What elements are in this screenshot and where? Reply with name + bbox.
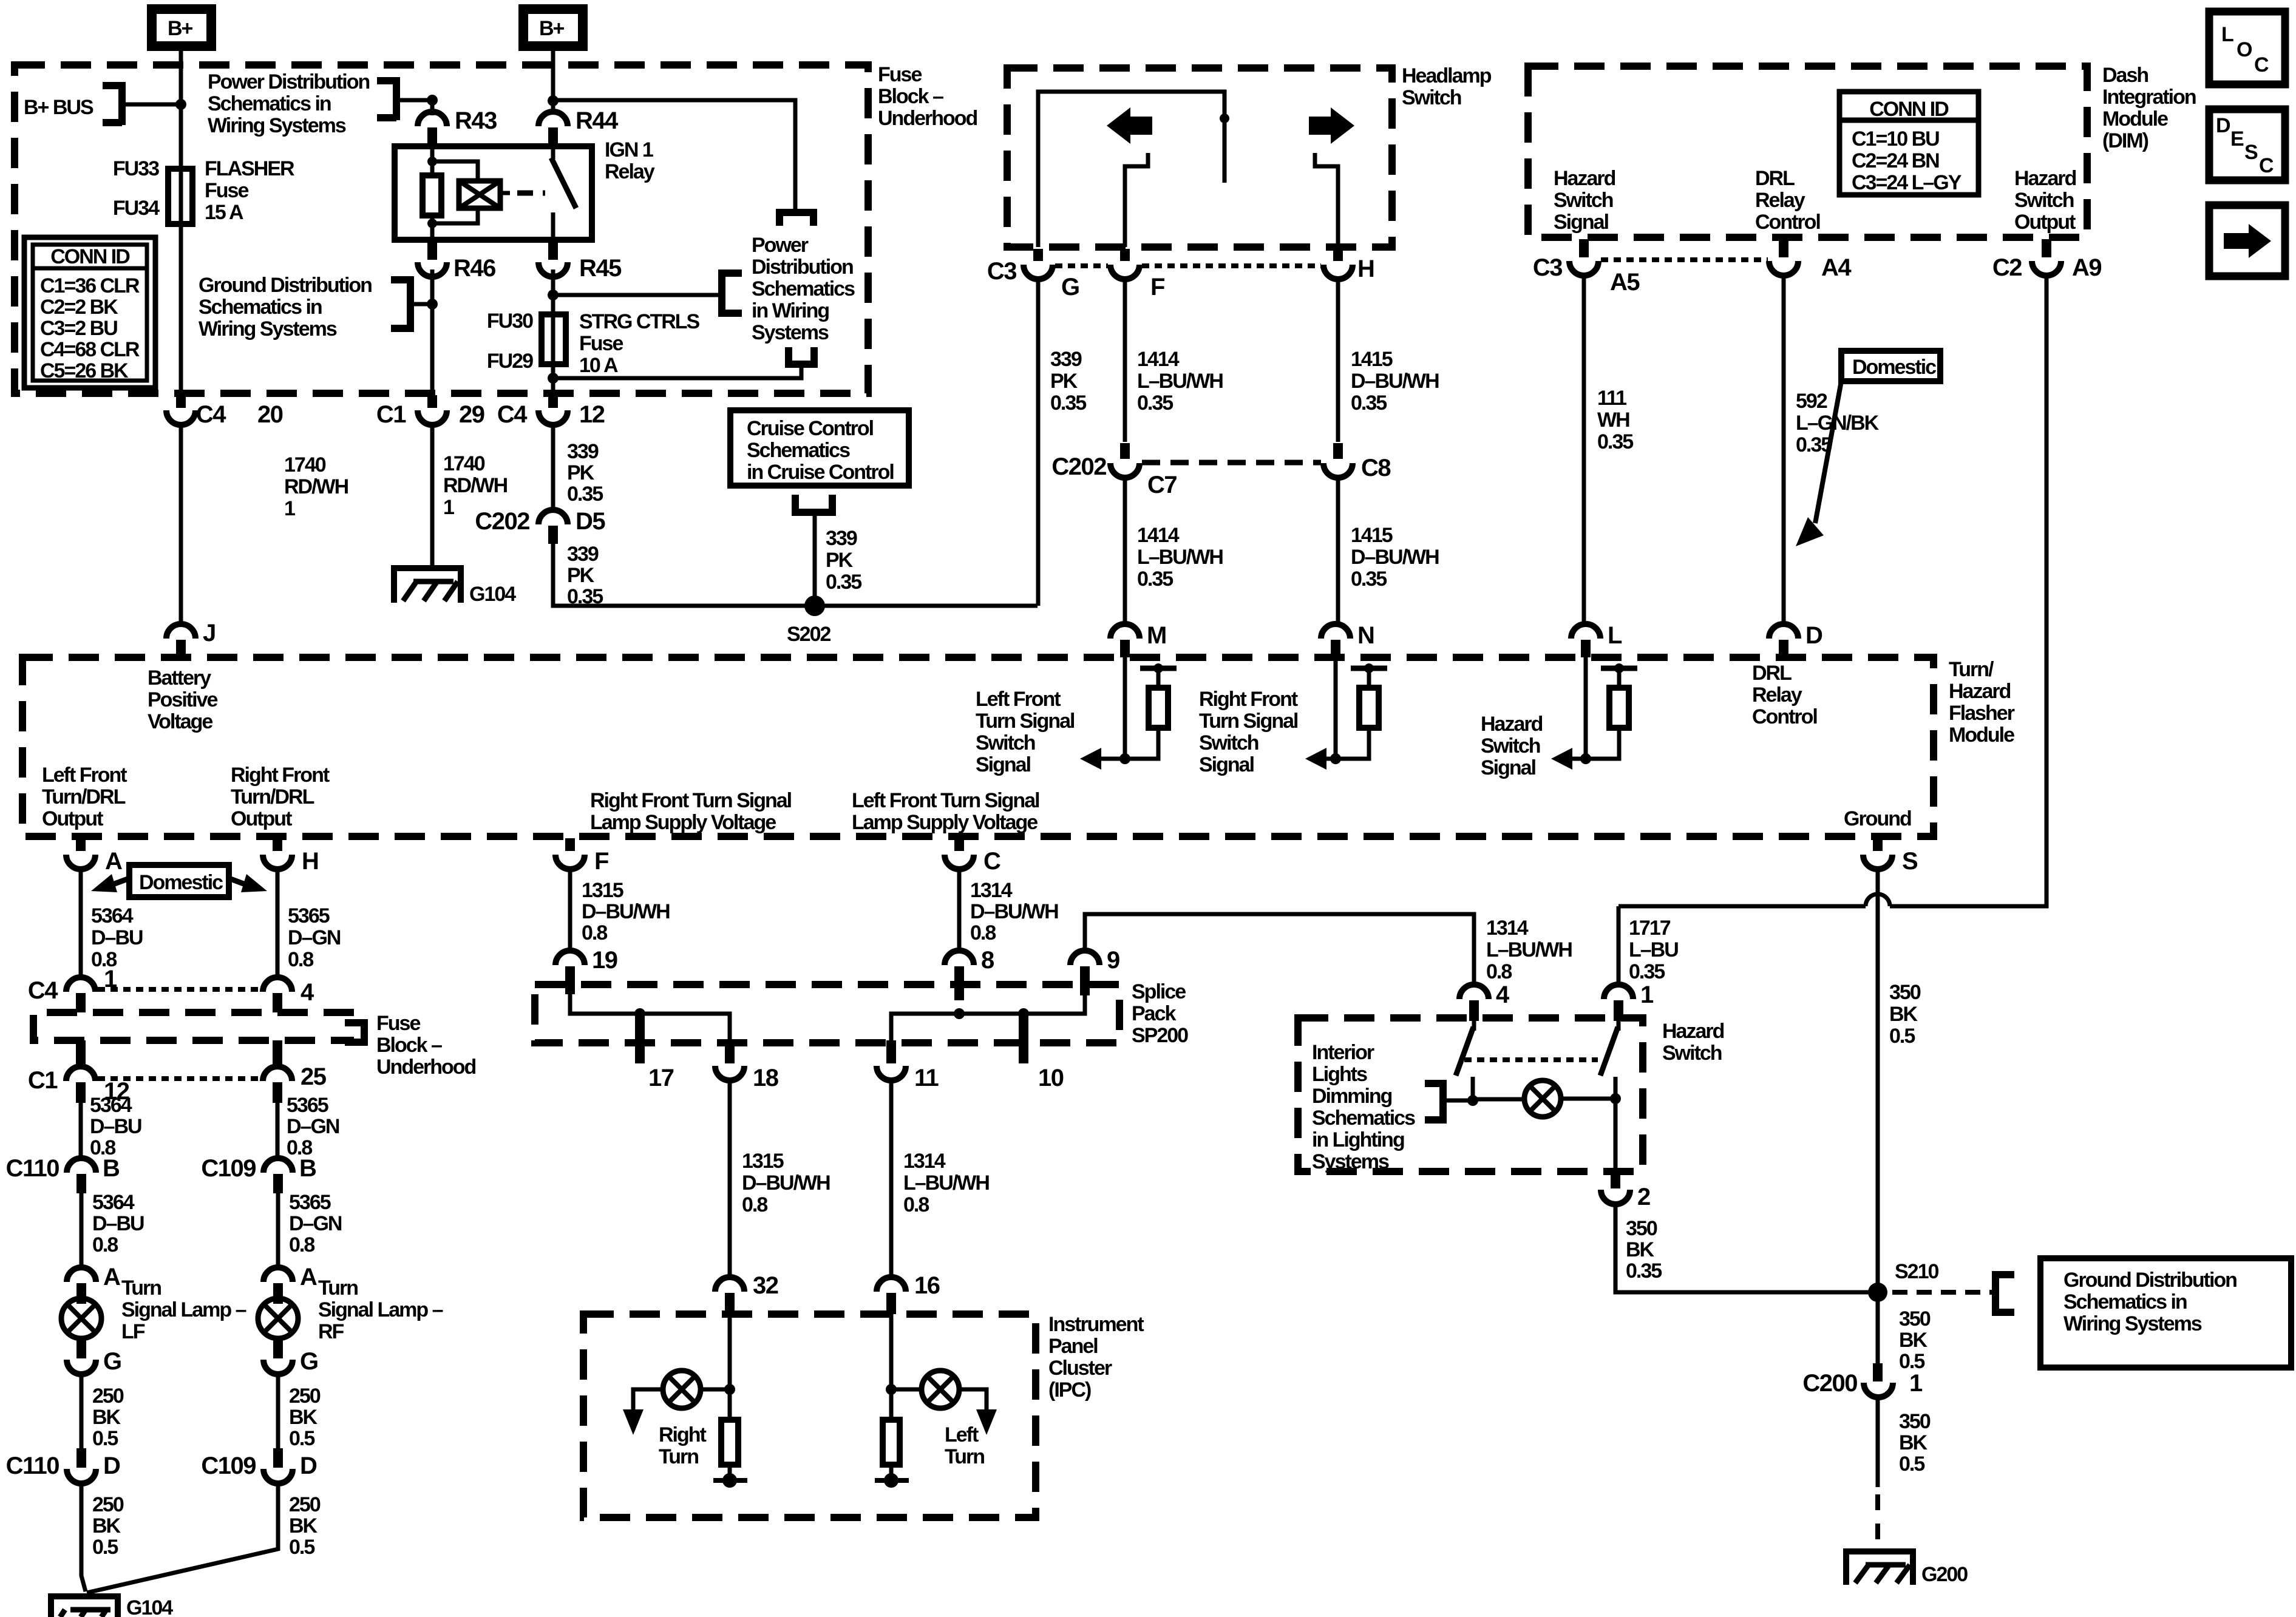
- DESC box: [2209, 109, 2285, 180]
- svg-text:CONN ID: CONN ID: [50, 245, 130, 268]
- connector 9: [1070, 951, 1099, 965]
- svg-text:FU33: FU33: [113, 157, 159, 180]
- svg-text:G104: G104: [126, 1596, 173, 1617]
- wire R43 top: [430, 100, 435, 115]
- svg-text:Left Front Turn Signal: Left Front Turn Signal: [852, 789, 1039, 812]
- relay switch: [551, 146, 555, 240]
- B+ terminal 1: [152, 9, 211, 46]
- svg-text:S: S: [1902, 848, 1918, 875]
- svg-text:Switch: Switch: [1554, 189, 1613, 212]
- svg-text:Output: Output: [2014, 211, 2076, 234]
- svg-text:19: 19: [592, 947, 617, 974]
- hazard switch blades: [1474, 1021, 1618, 1031]
- node S202 splice: [804, 595, 825, 616]
- svg-text:0.5: 0.5: [1889, 1025, 1915, 1048]
- svg-text:350: 350: [1626, 1217, 1657, 1240]
- svg-text:STRG CTRLS: STRG CTRLS: [579, 310, 700, 333]
- dotted link C4 row: [98, 987, 260, 992]
- svg-text:Ground: Ground: [1844, 807, 1911, 830]
- svg-text:Power: Power: [752, 234, 809, 257]
- svg-text:Output: Output: [231, 807, 292, 830]
- svg-text:C200: C200: [1802, 1370, 1857, 1397]
- svg-text:Block –: Block –: [878, 85, 943, 108]
- svg-text:B+: B+: [539, 17, 565, 40]
- svg-text:D–BU/WH: D–BU/WH: [1351, 546, 1439, 569]
- splice pack SP200 (dashed box): [535, 985, 1119, 1043]
- svg-text:Right Front: Right Front: [231, 764, 330, 787]
- svg-text:Domestic: Domestic: [139, 871, 223, 894]
- svg-text:C2=24 BN: C2=24 BN: [1852, 149, 1939, 172]
- svg-text:G200: G200: [1921, 1563, 1968, 1586]
- ground G200: [1846, 1551, 1968, 1586]
- svg-text:D–GN: D–GN: [288, 926, 341, 949]
- svg-text:0.35: 0.35: [1629, 960, 1665, 983]
- svg-text:C7: C7: [1147, 472, 1177, 498]
- wire 350 BK 0.5 (to G200): [1876, 1398, 1880, 1487]
- node ground dist junction: [427, 299, 438, 310]
- svg-text:Turn: Turn: [659, 1445, 698, 1468]
- connector C4-12: [548, 395, 558, 408]
- svg-text:R45: R45: [579, 255, 622, 282]
- svg-text:1315: 1315: [582, 879, 623, 902]
- ground distribution reference box: [2040, 1258, 2291, 1368]
- svg-text:BK: BK: [289, 1514, 318, 1537]
- connector 18: [725, 1040, 735, 1063]
- connector C109-B: [263, 1158, 293, 1173]
- svg-text:L–BU/WH: L–BU/WH: [1137, 370, 1223, 393]
- svg-text:Relay: Relay: [605, 160, 655, 183]
- wire 1740 RD/WH 1 (C1-29): [430, 425, 435, 568]
- svg-text:Fuse: Fuse: [878, 63, 922, 86]
- svg-text:Distribution: Distribution: [752, 256, 853, 279]
- svg-text:Hazard: Hazard: [1481, 713, 1543, 736]
- hazard indicator lamp: [1473, 1099, 1615, 1099]
- svg-text:Block –: Block –: [376, 1034, 442, 1057]
- svg-text:Wiring Systems: Wiring Systems: [2063, 1312, 2202, 1335]
- svg-text:Splice: Splice: [1132, 980, 1186, 1003]
- wire 1414 L-BU/WH (F lower): [1123, 478, 1127, 624]
- svg-text:592: 592: [1796, 390, 1827, 413]
- svg-text:F: F: [594, 848, 608, 875]
- svg-text:5364: 5364: [91, 904, 134, 927]
- svg-text:Left: Left: [945, 1423, 979, 1446]
- wire B+1 down: [179, 51, 183, 393]
- svg-text:250: 250: [92, 1385, 124, 1408]
- svg-text:32: 32: [753, 1272, 778, 1299]
- svg-text:A9: A9: [2072, 254, 2101, 281]
- svg-text:Systems: Systems: [1312, 1150, 1389, 1173]
- connector A4: [1779, 239, 1788, 257]
- svg-text:L–GN/BK: L–GN/BK: [1796, 412, 1880, 435]
- connector A (lamp LF): [67, 1267, 96, 1282]
- connector C4-20: [176, 395, 186, 408]
- svg-text:Cluster: Cluster: [1048, 1357, 1112, 1380]
- connector C4-4 (right): [263, 977, 292, 992]
- svg-text:5365: 5365: [287, 1094, 328, 1117]
- svg-text:L–BU/WH: L–BU/WH: [903, 1171, 989, 1195]
- svg-text:1414: 1414: [1137, 348, 1180, 371]
- svg-text:0.35: 0.35: [1050, 392, 1086, 415]
- svg-text:339: 339: [826, 527, 857, 550]
- B+ terminal 2: [523, 9, 583, 46]
- svg-text:Fuse: Fuse: [579, 332, 623, 355]
- wire 250 BK 0.5 (LF): [80, 1374, 84, 1448]
- svg-text:5364: 5364: [92, 1191, 135, 1214]
- svg-text:5364: 5364: [90, 1094, 132, 1117]
- svg-text:339: 339: [1050, 348, 1082, 371]
- connector G (RF): [273, 1338, 283, 1358]
- svg-text:C: C: [2254, 53, 2269, 76]
- svg-text:29: 29: [459, 401, 484, 428]
- ground G104 (lower): [51, 1596, 173, 1617]
- svg-text:Ground Distribution: Ground Distribution: [2063, 1269, 2237, 1292]
- connector J: [166, 624, 195, 639]
- svg-text:0.8: 0.8: [903, 1193, 929, 1216]
- wire 250 BK 0.5 (LF 2): [81, 1483, 86, 1592]
- svg-text:Turn Signal: Turn Signal: [1199, 710, 1298, 733]
- svg-text:A: A: [103, 1264, 120, 1290]
- svg-text:CONN ID: CONN ID: [1869, 98, 1949, 121]
- svg-text:D: D: [2216, 114, 2230, 137]
- svg-text:4: 4: [1496, 981, 1510, 1008]
- splice bus left: [570, 994, 730, 1040]
- svg-text:BK: BK: [1626, 1238, 1655, 1261]
- bracket fuse block label: [345, 1019, 364, 1046]
- svg-text:0.5: 0.5: [1899, 1453, 1924, 1476]
- L internal: [1584, 657, 1588, 759]
- svg-text:L–BU: L–BU: [1629, 938, 1678, 961]
- svg-text:4: 4: [301, 979, 314, 1006]
- connector C1-29: [427, 395, 437, 408]
- svg-text:D–BU/WH: D–BU/WH: [582, 900, 670, 923]
- svg-text:250: 250: [92, 1493, 124, 1516]
- svg-text:D–GN: D–GN: [289, 1212, 342, 1235]
- connector C4-1 (left): [66, 977, 95, 992]
- svg-text:C109: C109: [201, 1453, 256, 1479]
- svg-text:0.35: 0.35: [1351, 568, 1387, 591]
- svg-text:Switch: Switch: [1662, 1042, 1722, 1065]
- svg-text:Instrument: Instrument: [1048, 1313, 1144, 1336]
- svg-text:(IPC): (IPC): [1048, 1378, 1091, 1402]
- wire 5364 D-BU 0.8 (A): [79, 869, 83, 977]
- svg-text:Turn: Turn: [945, 1445, 984, 1468]
- connector S (module bottom): [1873, 838, 1883, 851]
- connector C1-12 (left): [76, 1040, 86, 1066]
- svg-text:PK: PK: [567, 564, 595, 587]
- svg-text:Schematics in: Schematics in: [199, 296, 322, 319]
- svg-text:Turn Signal: Turn Signal: [976, 710, 1075, 733]
- svg-text:E: E: [2230, 127, 2244, 151]
- connector D: [1769, 624, 1798, 639]
- hop over S wire: [1866, 894, 1890, 906]
- svg-text:DRL: DRL: [1752, 662, 1792, 685]
- svg-text:D5: D5: [576, 508, 605, 535]
- Domestic tag (left) with arrows: [91, 865, 267, 897]
- svg-text:1314: 1314: [1486, 917, 1529, 940]
- node S210 splice: [1868, 1283, 1887, 1302]
- svg-text:250: 250: [289, 1385, 321, 1408]
- svg-text:Right Front Turn Signal: Right Front Turn Signal: [590, 789, 792, 812]
- svg-text:PK: PK: [826, 549, 854, 572]
- svg-text:BK: BK: [1899, 1431, 1928, 1454]
- bracket pd right-left: [722, 269, 742, 317]
- svg-text:0.8: 0.8: [92, 1233, 118, 1256]
- svg-text:C1=10 BU: C1=10 BU: [1852, 127, 1939, 151]
- svg-text:Voltage: Voltage: [148, 710, 212, 733]
- svg-text:Cruise Control: Cruise Control: [747, 417, 874, 440]
- connector H (headlamp): [1333, 249, 1343, 261]
- wire 5365 D-GN 0.8 (H): [276, 869, 280, 977]
- connector C202-C7: [1120, 443, 1130, 459]
- bracket power distribution left: [377, 77, 396, 120]
- wire 1415 D-BU/WH (H upper): [1336, 279, 1340, 442]
- svg-text:C1: C1: [376, 401, 406, 428]
- connector C (module bottom): [954, 838, 964, 851]
- svg-text:B+ BUS: B+ BUS: [24, 96, 93, 119]
- svg-text:C: C: [2259, 154, 2274, 177]
- connector 19: [555, 951, 585, 965]
- connector C2-A9: [2042, 239, 2051, 257]
- svg-text:0.35: 0.35: [1137, 568, 1173, 591]
- svg-text:0.8: 0.8: [742, 1193, 767, 1216]
- wire 1414 L-BU/WH (F upper): [1123, 279, 1127, 442]
- svg-text:1415: 1415: [1351, 524, 1393, 547]
- svg-text:RF: RF: [318, 1320, 344, 1343]
- svg-text:0.35: 0.35: [1137, 392, 1173, 415]
- relay resistor: [430, 146, 435, 240]
- connector R46: [427, 242, 437, 260]
- svg-text:Hazard: Hazard: [1949, 680, 2011, 703]
- right contact: [1315, 153, 1338, 247]
- svg-text:PK: PK: [1050, 370, 1078, 393]
- svg-text:0.8: 0.8: [970, 921, 996, 944]
- wire 1315 D-BU/WH 0.8 (F chain): [568, 869, 572, 951]
- svg-text:D–BU/WH: D–BU/WH: [970, 900, 1058, 923]
- svg-text:Right Front: Right Front: [1199, 688, 1298, 711]
- svg-text:F: F: [1150, 274, 1164, 300]
- CONN ID table (DIM): [1839, 92, 1978, 195]
- LOC box: [2209, 12, 2285, 84]
- svg-text:C109: C109: [201, 1155, 256, 1182]
- svg-text:Battery: Battery: [148, 666, 211, 690]
- bracket pd top: [779, 212, 813, 226]
- connector M: [1110, 624, 1140, 639]
- connector L: [1571, 624, 1600, 639]
- wire 1314 L-BU/WH 0.8 (11 to 16): [889, 1080, 894, 1277]
- left turn arrow: [1107, 107, 1152, 144]
- svg-text:Control: Control: [1755, 211, 1820, 234]
- stub 17: [635, 1014, 645, 1063]
- svg-text:12: 12: [579, 401, 605, 428]
- connector C8: [1333, 443, 1343, 459]
- svg-text:Left Front: Left Front: [42, 764, 127, 787]
- wire 9 up to 1314 run: [1085, 914, 1474, 985]
- wire bracket to bus: [122, 103, 181, 107]
- connector G (LF): [76, 1338, 86, 1358]
- svg-text:Switch: Switch: [2014, 189, 2074, 212]
- svg-text:FU29: FU29: [487, 350, 533, 373]
- svg-text:1740: 1740: [284, 453, 326, 476]
- svg-text:Switch: Switch: [976, 731, 1035, 754]
- svg-text:RD/WH: RD/WH: [284, 475, 348, 498]
- node junction B+ bus: [175, 99, 186, 110]
- svg-text:Underhood: Underhood: [878, 107, 977, 130]
- svg-text:Signal Lamp –: Signal Lamp –: [318, 1298, 443, 1321]
- svg-text:Pack: Pack: [1132, 1002, 1176, 1025]
- svg-text:A: A: [105, 848, 122, 875]
- svg-text:B: B: [103, 1155, 120, 1182]
- svg-text:C8: C8: [1361, 455, 1391, 481]
- relay coil: [432, 161, 478, 223]
- connector N: [1321, 624, 1350, 639]
- svg-text:1: 1: [284, 497, 295, 520]
- left turn indicator lamp: [889, 1314, 894, 1420]
- svg-text:J: J: [203, 620, 216, 646]
- svg-text:DRL: DRL: [1755, 167, 1795, 190]
- splice bus right: [891, 995, 1085, 1040]
- svg-text:LF: LF: [121, 1320, 145, 1343]
- node junction R44 top: [548, 95, 559, 106]
- svg-text:Ground Distribution: Ground Distribution: [199, 274, 372, 297]
- svg-text:C110: C110: [6, 1453, 59, 1479]
- wire 250 BK 0.5 (RF 2): [87, 1483, 278, 1593]
- svg-text:Wiring Systems: Wiring Systems: [199, 317, 337, 341]
- svg-text:S202: S202: [787, 623, 830, 646]
- svg-text:D–BU: D–BU: [92, 1212, 144, 1235]
- svg-text:IGN 1: IGN 1: [605, 138, 653, 161]
- wire 1314 D-BU/WH 0.8 (C chain): [957, 869, 962, 951]
- svg-text:Lights: Lights: [1312, 1063, 1367, 1086]
- M internal: wire, resistor branch, arrow: [1123, 657, 1127, 759]
- svg-text:Switch: Switch: [1199, 731, 1258, 754]
- svg-text:D–BU/WH: D–BU/WH: [742, 1171, 830, 1195]
- connector 16: [877, 1277, 906, 1292]
- relay coil to switch dashes: [500, 191, 510, 195]
- svg-text:0.5: 0.5: [92, 1427, 118, 1450]
- svg-text:in Lighting: in Lighting: [1312, 1128, 1404, 1151]
- connector C3-G: [1033, 249, 1043, 261]
- wire 1315 D-BU/WH 0.8 (18 to 32): [728, 1080, 732, 1277]
- connector A (module bottom): [76, 838, 86, 851]
- connector 8: [945, 951, 974, 965]
- svg-text:G104: G104: [469, 583, 516, 606]
- S wire down: [1876, 869, 1880, 1292]
- svg-text:Underhood: Underhood: [376, 1056, 476, 1079]
- svg-text:in Wiring: in Wiring: [752, 299, 829, 322]
- svg-text:C3=24 L–GY: C3=24 L–GY: [1852, 171, 1962, 194]
- svg-text:Fuse: Fuse: [376, 1012, 420, 1035]
- wire 592 L-GN/BK 0.35 (A4 to D): [1782, 276, 1786, 624]
- svg-text:1315: 1315: [742, 1150, 784, 1173]
- svg-text:B+: B+: [168, 17, 193, 40]
- svg-text:C3=2 BU: C3=2 BU: [40, 317, 117, 340]
- svg-text:C1=36 CLR: C1=36 CLR: [40, 274, 140, 297]
- svg-text:L: L: [2221, 23, 2233, 46]
- svg-text:FLASHER: FLASHER: [205, 157, 294, 180]
- svg-text:Interior: Interior: [1312, 1041, 1374, 1064]
- svg-text:1: 1: [443, 496, 454, 519]
- connector 1 (hazard): [1617, 906, 1621, 985]
- svg-text:H: H: [302, 848, 318, 875]
- svg-text:350: 350: [1899, 1307, 1931, 1331]
- svg-text:C4: C4: [497, 401, 528, 428]
- svg-text:1: 1: [1909, 1370, 1923, 1397]
- wire 339 PK 0.35 below D5: [553, 544, 1038, 606]
- svg-text:0.35: 0.35: [826, 571, 861, 594]
- svg-text:WH: WH: [1597, 408, 1629, 432]
- svg-text:Lamp Supply Voltage: Lamp Supply Voltage: [852, 811, 1038, 834]
- wire 5365 D-GN 0.8 (2): [276, 1103, 280, 1158]
- svg-text:339: 339: [567, 440, 599, 463]
- wire R46 down to C1-29: [430, 269, 435, 393]
- connector R43 (dome): [418, 112, 447, 126]
- svg-text:S210: S210: [1895, 1260, 1938, 1283]
- N internal: [1334, 657, 1338, 759]
- svg-text:FU34: FU34: [113, 197, 160, 220]
- svg-text:Hazard: Hazard: [2014, 167, 2076, 190]
- svg-text:Schematics: Schematics: [1312, 1107, 1415, 1130]
- svg-text:350: 350: [1899, 1410, 1931, 1433]
- svg-text:1717: 1717: [1629, 917, 1671, 940]
- svg-text:C3: C3: [1533, 254, 1562, 281]
- svg-text:R43: R43: [455, 107, 497, 134]
- svg-text:B: B: [299, 1155, 316, 1182]
- svg-text:0.35: 0.35: [567, 585, 603, 608]
- svg-text:17: 17: [648, 1065, 674, 1091]
- IGN 1 relay box: [395, 146, 592, 240]
- connector C110-D: [76, 1448, 86, 1468]
- wire 1415 D-BU/WH (H lower): [1336, 478, 1340, 624]
- bracket interior lights: [1425, 1080, 1443, 1124]
- svg-text:1314: 1314: [970, 879, 1013, 902]
- svg-text:Module: Module: [2102, 107, 2168, 131]
- turn/hazard flasher module (dashed box): [22, 657, 1934, 836]
- connector C109-D: [273, 1448, 283, 1468]
- svg-text:H: H: [1357, 256, 1374, 282]
- svg-text:Turn: Turn: [121, 1276, 161, 1300]
- svg-text:D–GN: D–GN: [287, 1115, 339, 1138]
- svg-text:Switch: Switch: [1481, 734, 1540, 758]
- connector C3-A5: [1579, 239, 1589, 257]
- svg-text:L: L: [1608, 622, 1622, 649]
- dotted link G-F-H: [1055, 263, 1321, 268]
- dash integration module DIM (dashed box): [1528, 66, 2087, 237]
- svg-text:1740: 1740: [443, 452, 485, 475]
- svg-text:D–BU/WH: D–BU/WH: [1351, 370, 1439, 393]
- right turn indicator lamp: [728, 1314, 732, 1420]
- svg-text:C2=2 BK: C2=2 BK: [40, 296, 118, 319]
- svg-text:C1: C1: [28, 1067, 58, 1094]
- headlamp switch (dashed box): [1007, 68, 1392, 247]
- svg-text:5365: 5365: [289, 1191, 331, 1214]
- wire 339 PK 0.35 (C4-12 to D5): [551, 425, 555, 510]
- svg-text:15 A: 15 A: [205, 201, 243, 224]
- stub 10: [1019, 1014, 1028, 1063]
- svg-text:Turn/: Turn/: [1949, 658, 1994, 681]
- svg-text:Lamp Supply Voltage: Lamp Supply Voltage: [590, 811, 776, 834]
- svg-text:D–BU: D–BU: [91, 926, 143, 949]
- wire 339 PK 0.35 (G): [1036, 279, 1041, 606]
- wire 350 BK 0.5 (below S210): [1876, 1292, 1880, 1363]
- svg-text:D: D: [103, 1453, 120, 1479]
- right turn resistor: [721, 1420, 738, 1465]
- wire 1740 RD/WH 1 (left): [179, 425, 183, 624]
- connector F (headlamp): [1120, 249, 1130, 261]
- svg-text:Positive: Positive: [148, 688, 217, 711]
- connector R45: [548, 242, 558, 260]
- svg-text:G: G: [1061, 274, 1079, 300]
- svg-text:11: 11: [914, 1065, 939, 1091]
